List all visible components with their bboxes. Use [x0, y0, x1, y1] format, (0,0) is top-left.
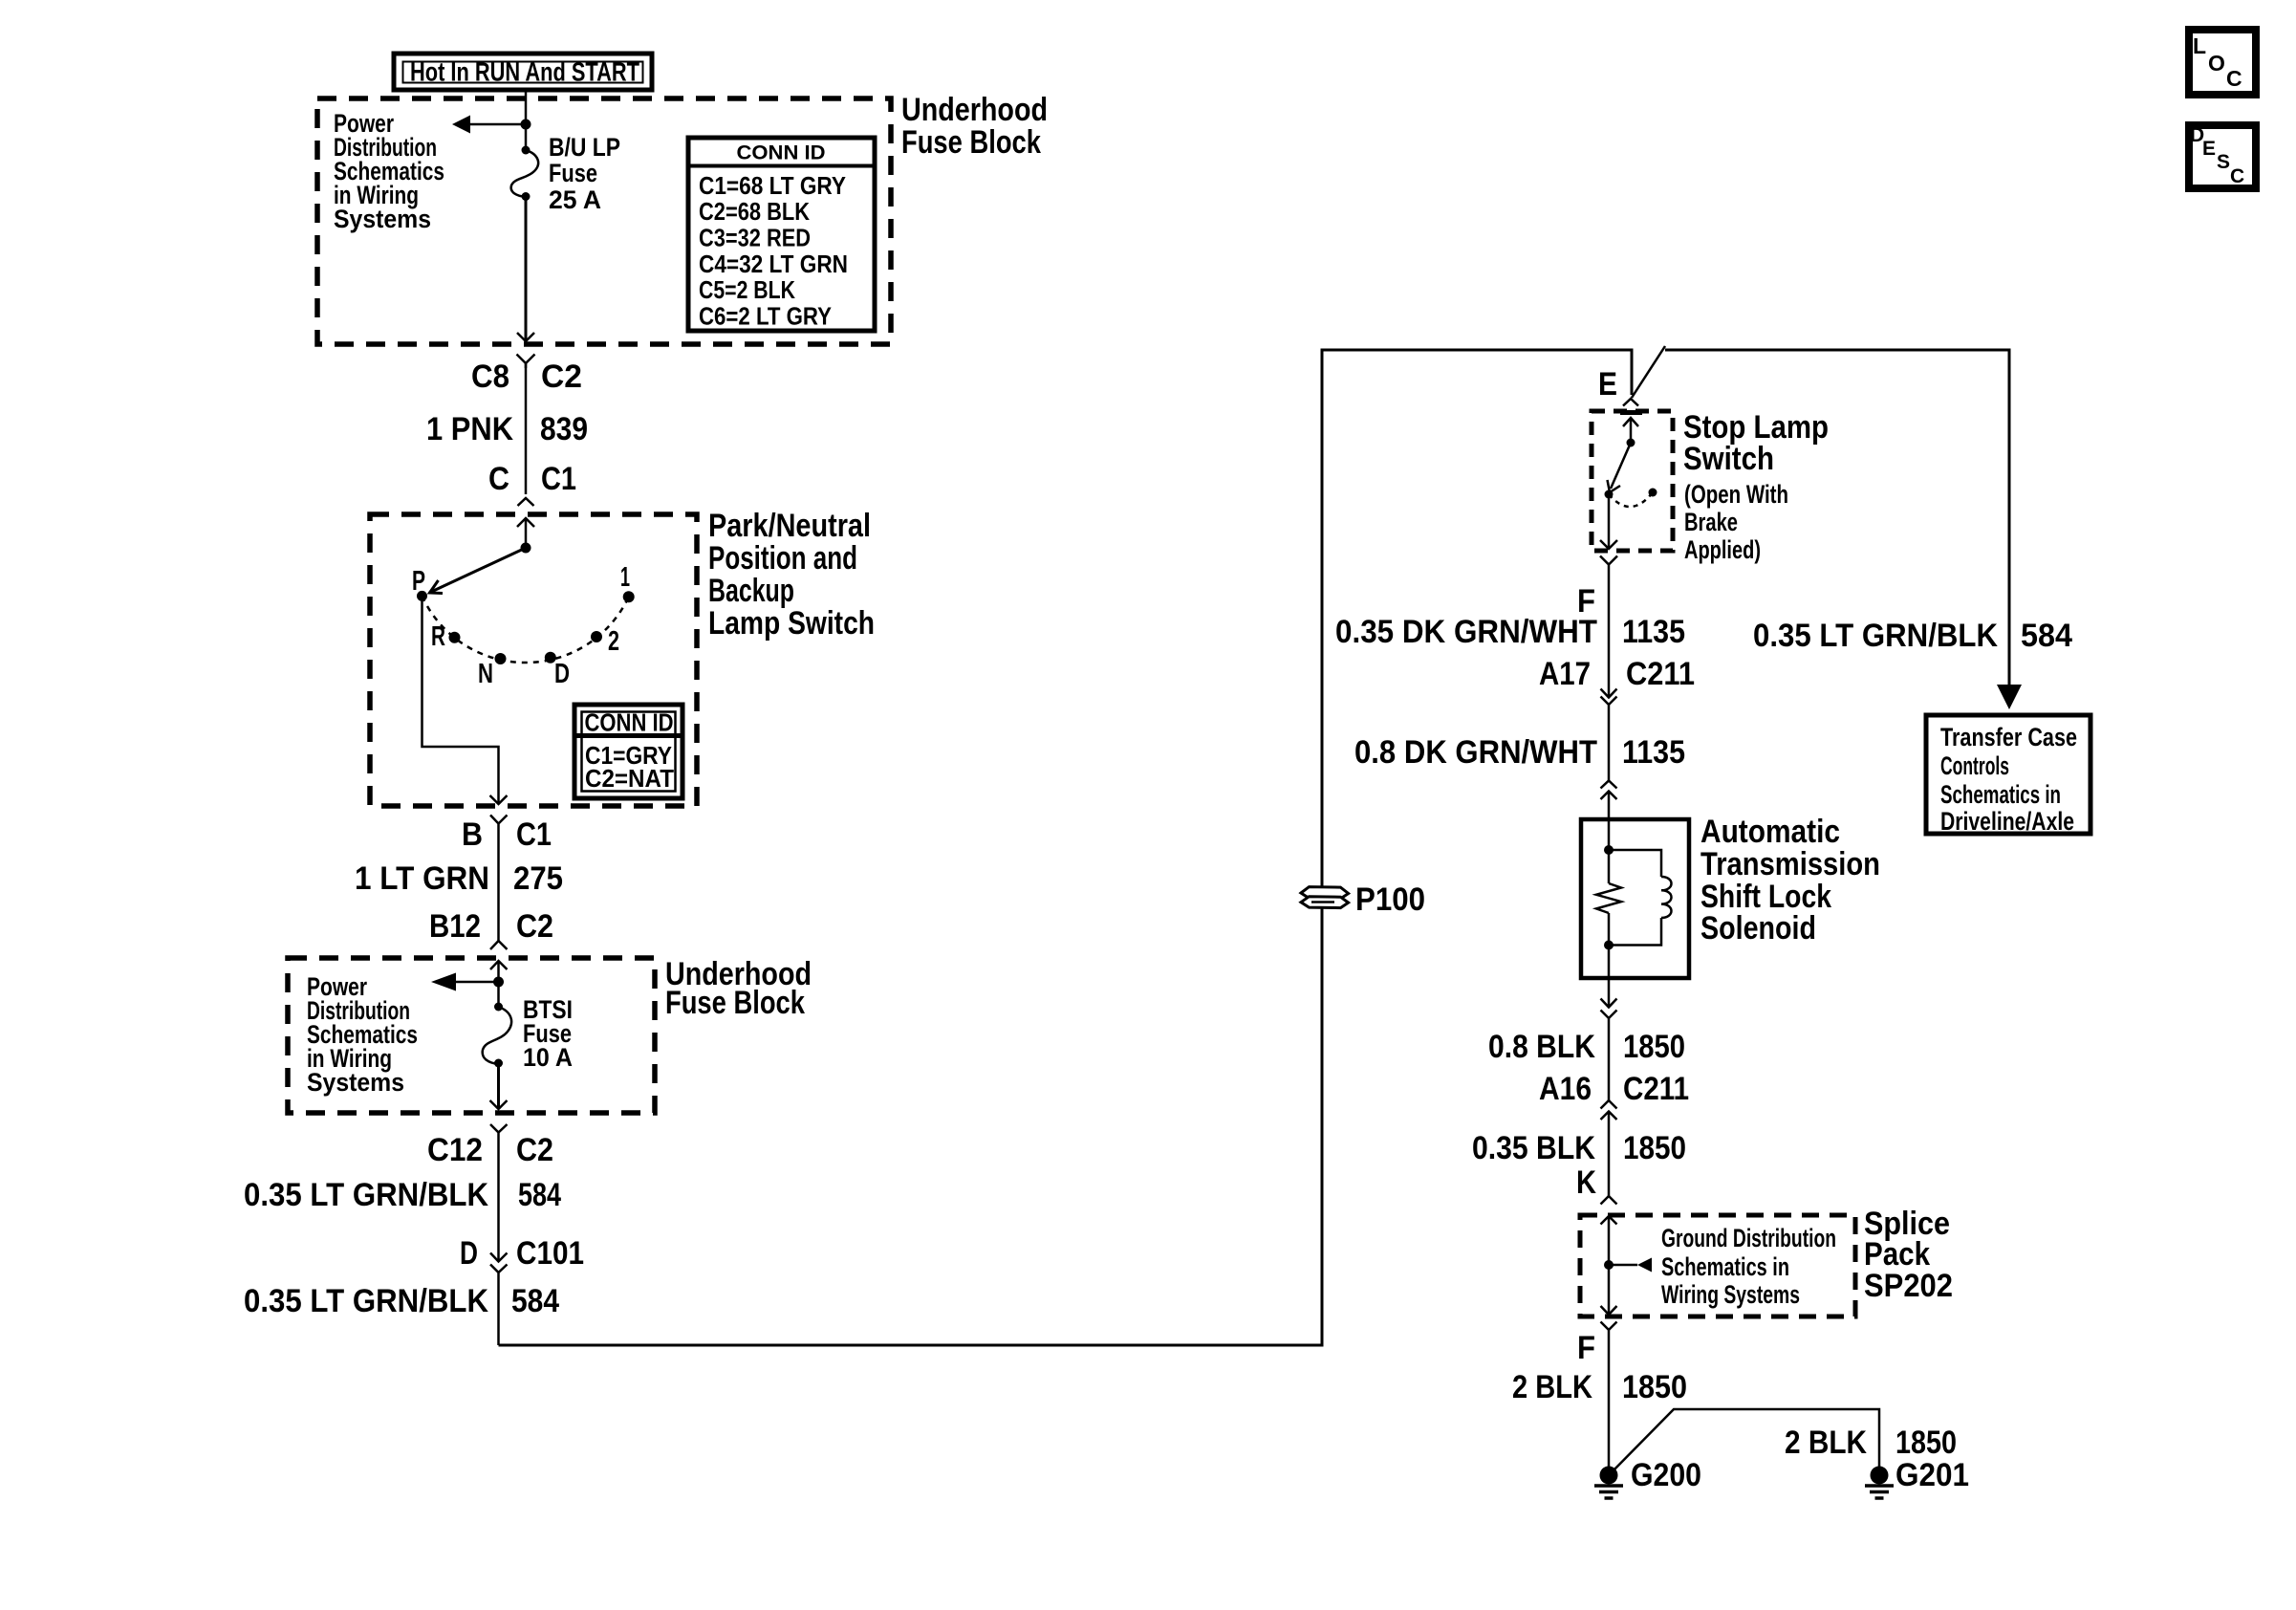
svg-text:0.8 BLK: 0.8 BLK: [1488, 1029, 1595, 1065]
svg-text:Position and: Position and: [708, 540, 857, 577]
connector D/C101 female half: [490, 1265, 508, 1346]
svg-text:Hot In RUN And START: Hot In RUN And START: [410, 57, 639, 87]
svg-text:G200: G200: [1631, 1457, 1701, 1493]
svg-text:1850: 1850: [1895, 1425, 1957, 1461]
svg-text:275: 275: [513, 860, 563, 897]
stop lamp switch pivot dot: [1627, 439, 1635, 447]
svg-text:Wiring Systems: Wiring Systems: [1661, 1280, 1800, 1309]
svg-text:584: 584: [518, 1177, 561, 1213]
svg-text:Transfer Case: Transfer Case: [1940, 723, 2077, 751]
svg-text:1850: 1850: [1623, 1029, 1685, 1065]
svg-text:A16: A16: [1539, 1071, 1592, 1107]
contact R dot: [449, 632, 461, 643]
wire: dot to fuse: [525, 124, 528, 150]
wire: dot to fuse: [497, 982, 500, 1007]
svg-text:F: F: [1577, 1330, 1595, 1366]
connector C/C1 female half: [518, 498, 534, 506]
svg-text:1 PNK: 1 PNK: [426, 411, 513, 447]
svg-text:Brake: Brake: [1684, 508, 1738, 536]
wire: tap to power distribution: [470, 123, 526, 126]
connector arrow (male) at stop lamp exit: [1600, 540, 1617, 549]
svg-text:E: E: [1598, 366, 1617, 402]
svg-text:D: D: [460, 1235, 478, 1272]
svg-text:Fuse: Fuse: [549, 159, 597, 187]
connector F female half: [1600, 556, 1617, 698]
svg-text:Controls: Controls: [1940, 751, 2009, 780]
svg-text:Schematics in: Schematics in: [1661, 1252, 1789, 1281]
Splice Pack SP202 dashed box: [1580, 1215, 1855, 1316]
connector A16/C211 female half: [1601, 1100, 1617, 1109]
connector arrow (male) at fuse block exit: [517, 333, 534, 341]
svg-text:1850: 1850: [1622, 1369, 1687, 1405]
Underhood Fuse Block 1 dashed box: [317, 98, 891, 344]
connector K male arrow into splice pack: [1601, 1216, 1617, 1265]
LOC reference box: [2189, 30, 2256, 95]
svg-text:C3=32 RED: C3=32 RED: [699, 224, 811, 252]
svg-text:0.35 LT GRN/BLK: 0.35 LT GRN/BLK: [1753, 618, 1998, 654]
connector B12/C2 male arrow into fuse block: [490, 961, 508, 982]
svg-text:C101: C101: [516, 1235, 584, 1272]
node: splice junction dot: [1604, 1260, 1614, 1270]
stop lamp left contact dot: [1605, 490, 1614, 499]
svg-text:584: 584: [2021, 618, 2072, 654]
svg-text:0.35 BLK: 0.35 BLK: [1472, 1130, 1595, 1166]
svg-text:Automatic: Automatic: [1700, 814, 1840, 850]
svg-text:2 BLK: 2 BLK: [1785, 1425, 1867, 1461]
stop lamp switch arm to contact: [1608, 443, 1632, 492]
svg-text:C6=2 LT GRY: C6=2 LT GRY: [699, 302, 832, 331]
svg-text:0.35 LT GRN/BLK: 0.35 LT GRN/BLK: [244, 1177, 488, 1213]
svg-text:Applied): Applied): [1684, 535, 1761, 564]
node: solenoid bottom junction dot: [1604, 941, 1614, 950]
wire: long run from C101 to stop lamp switch: [499, 350, 1633, 1345]
svg-text:Driveline/Axle: Driveline/Axle: [1940, 807, 2074, 836]
svg-text:G201: G201: [1895, 1457, 1969, 1493]
wire into solenoid: [1608, 819, 1611, 850]
svg-text:1 LT GRN: 1 LT GRN: [355, 860, 489, 897]
stop lamp switch arm arrow up: [1623, 418, 1638, 443]
connector B12/C2 female half: [490, 941, 508, 949]
Ground Distribution note: [1661, 1224, 1836, 1309]
wire: tap to ground distribution: [1609, 1264, 1637, 1267]
Park/Neutral switch label: [708, 508, 875, 642]
svg-text:C: C: [488, 461, 509, 497]
wire 1 PNK 839: [525, 363, 528, 494]
switch pivot dot: [521, 543, 531, 554]
svg-text:C1=68 LT GRY: C1=68 LT GRY: [699, 171, 846, 200]
CONN ID table (P/N switch): [574, 705, 682, 798]
wire from contact to box edge: [1608, 494, 1611, 549]
svg-text:Solenoid: Solenoid: [1700, 910, 1816, 946]
fuse B/U LP 25A: [511, 146, 538, 202]
connector A16/C211 male arrow: [1601, 1112, 1617, 1197]
wire: splice dot to box edge: [1608, 1265, 1611, 1315]
wire from P contact to switch output: [422, 596, 499, 804]
Transfer Case Controls box: [1926, 715, 2090, 836]
svg-text:C: C: [2226, 66, 2242, 91]
CONN ID table (fuse block 1): [688, 138, 875, 331]
svg-text:0.35 DK GRN/WHT: 0.35 DK GRN/WHT: [1335, 614, 1597, 650]
fuse BTSI 10A: [483, 1003, 511, 1068]
fuse label B/U LP Fuse 25 A: [549, 133, 620, 214]
arrow into transfer case controls box: [1997, 685, 2022, 709]
svg-text:Switch: Switch: [1683, 441, 1774, 477]
svg-text:Systems: Systems: [334, 205, 431, 233]
svg-text:L: L: [2193, 33, 2206, 58]
connector C12/C2 female half: [490, 1124, 508, 1262]
resistor (solenoid suppression): [1596, 850, 1621, 946]
svg-text:E: E: [2202, 138, 2216, 160]
connector arrow (male) at switch exit: [490, 795, 508, 804]
svg-text:25 A: 25 A: [549, 185, 601, 214]
wire from Hot box into fuse block: [525, 90, 528, 122]
Power Distribution note (fuse block 2): [307, 972, 418, 1097]
contact 2 dot: [591, 631, 602, 642]
svg-text:1135: 1135: [1622, 614, 1685, 650]
Automatic Transmission Shift Lock Solenoid box: [1581, 819, 1689, 978]
svg-text:0.8 DK GRN/WHT: 0.8 DK GRN/WHT: [1354, 734, 1597, 771]
svg-text:N: N: [478, 659, 493, 689]
svg-text:C2: C2: [516, 908, 553, 945]
connector below solenoid female half: [1601, 1011, 1617, 1101]
connector K female half: [1601, 1196, 1617, 1205]
svg-text:584: 584: [511, 1283, 559, 1319]
svg-text:C12: C12: [427, 1132, 483, 1168]
ground G201: [1865, 1467, 1894, 1499]
Power Distribution note (fuse block 1): [334, 109, 444, 233]
svg-text:B/U LP: B/U LP: [549, 133, 620, 162]
svg-text:C5=2 BLK: C5=2 BLK: [699, 275, 795, 304]
connector D/C101 male arrow: [490, 1253, 508, 1262]
svg-text:C2=68 BLK: C2=68 BLK: [699, 197, 810, 226]
wire: fuse down to box edge: [525, 196, 528, 341]
connector into solenoid male arrow: [1601, 792, 1617, 820]
dashed contact arc: [422, 596, 629, 663]
svg-text:(Open With: (Open With: [1684, 480, 1788, 509]
DESC reference box: [2189, 124, 2256, 188]
dashed arc between stop lamp contacts: [1609, 492, 1653, 507]
svg-text:1135: 1135: [1622, 734, 1685, 771]
svg-text:10 A: 10 A: [523, 1043, 573, 1072]
svg-text:C: C: [2230, 165, 2244, 187]
svg-text:Backup: Backup: [708, 573, 794, 609]
wire: branch to transfer case controls: [1665, 350, 2009, 690]
contact P dot: [417, 591, 427, 601]
solenoid label: [1700, 814, 1880, 946]
svg-text:Lamp Switch: Lamp Switch: [708, 605, 875, 642]
svg-text:C211: C211: [1623, 1071, 1689, 1107]
svg-text:CONN ID: CONN ID: [737, 142, 826, 164]
connector A17/C211 male arrow: [1601, 689, 1617, 698]
svg-text:C2: C2: [541, 359, 582, 395]
svg-text:O: O: [2208, 51, 2225, 76]
wire out of solenoid: [1608, 946, 1611, 1008]
fuse label BTSI Fuse 10 A: [523, 995, 573, 1072]
wire: tap to power distribution: [456, 981, 499, 984]
arrow to power distribution schematics: [431, 973, 456, 991]
node: solenoid top junction dot: [1604, 845, 1614, 855]
wire: branch diagonal at node E: [1632, 346, 1665, 398]
Splice Pack label: [1864, 1206, 1953, 1304]
node: junction dot at BTSI feed: [493, 977, 504, 988]
coil (solenoid winding): [1609, 850, 1672, 946]
svg-text:Schematics in: Schematics in: [1940, 780, 2061, 809]
svg-text:C4=32 LT GRN: C4=32 LT GRN: [699, 250, 848, 278]
connector below solenoid male arrow: [1601, 999, 1617, 1008]
svg-text:B12: B12: [429, 908, 481, 945]
connector A17/C211 female half: [1601, 697, 1617, 782]
arrow to ground distribution schematics: [1637, 1258, 1652, 1273]
connector C/C1 male arrow into switch: [517, 518, 534, 547]
svg-text:C211: C211: [1626, 656, 1695, 692]
Stop Lamp Switch dashed box: [1592, 411, 1673, 551]
svg-text:Ground Distribution: Ground Distribution: [1661, 1224, 1836, 1252]
svg-text:2: 2: [608, 626, 619, 657]
svg-text:Transmission: Transmission: [1700, 846, 1880, 882]
grommet P100: [1301, 887, 1349, 908]
svg-text:Park/Neutral: Park/Neutral: [708, 508, 871, 544]
Underhood Fuse Block 1 label: [901, 92, 1048, 161]
contact 1 dot: [623, 591, 635, 602]
node: junction dot at fuse feed: [521, 120, 531, 130]
svg-text:Underhood: Underhood: [901, 92, 1048, 128]
svg-text:Systems: Systems: [307, 1068, 404, 1097]
stop lamp right contact dot: [1649, 489, 1657, 497]
svg-text:Fuse Block: Fuse Block: [665, 985, 805, 1021]
svg-text:P100: P100: [1355, 881, 1425, 918]
connector C8/C2 female half: [517, 355, 535, 369]
svg-text:A17: A17: [1539, 656, 1591, 692]
svg-text:D: D: [554, 659, 570, 689]
Hot In RUN And START feed box: [394, 54, 652, 90]
Underhood Fuse Block 2 label: [665, 956, 812, 1021]
svg-text:C2: C2: [516, 1132, 553, 1168]
svg-text:839: 839: [540, 411, 588, 447]
connector E female half: [1623, 399, 1638, 406]
Stop Lamp Switch label: [1683, 409, 1829, 564]
svg-text:C8: C8: [471, 359, 509, 395]
svg-text:SP202: SP202: [1864, 1268, 1953, 1304]
connector into solenoid female half: [1601, 781, 1617, 789]
Park/Neutral Position and Backup Lamp Switch dashed box: [370, 514, 697, 806]
svg-text:C1: C1: [516, 816, 552, 853]
connector arrow (male) at fuse block 2 exit: [490, 1100, 508, 1109]
svg-text:K: K: [1576, 1164, 1596, 1201]
svg-text:C1: C1: [541, 461, 576, 497]
stop lamp switch fixed contact bar: [1620, 410, 1642, 415]
svg-text:2 BLK: 2 BLK: [1512, 1369, 1592, 1405]
svg-text:1: 1: [620, 562, 630, 593]
wire: fuse down to box edge: [497, 1063, 500, 1109]
svg-text:S: S: [2217, 151, 2230, 173]
svg-text:P: P: [412, 566, 425, 597]
arrow to power distribution schematics: [452, 116, 470, 134]
wire: branch from G200 to G201: [1609, 1409, 1879, 1475]
contact N dot: [495, 653, 507, 664]
svg-text:C2=NAT: C2=NAT: [585, 764, 674, 793]
connector F (ground) female half: [1601, 1322, 1617, 1474]
ground G200: [1594, 1467, 1623, 1499]
connector arrow (male) at splice exit: [1601, 1306, 1617, 1315]
svg-text:Fuse Block: Fuse Block: [901, 124, 1041, 161]
svg-text:0.35 LT GRN/BLK: 0.35 LT GRN/BLK: [244, 1283, 488, 1319]
svg-text:B: B: [462, 816, 483, 853]
connector B/C1 female half: [490, 816, 508, 942]
svg-text:CONN ID: CONN ID: [585, 708, 674, 737]
contact D dot: [545, 652, 556, 664]
switch wiper arm with arrow to P: [429, 548, 526, 594]
Underhood Fuse Block 2 dashed box: [288, 958, 655, 1113]
svg-text:1850: 1850: [1623, 1130, 1686, 1166]
